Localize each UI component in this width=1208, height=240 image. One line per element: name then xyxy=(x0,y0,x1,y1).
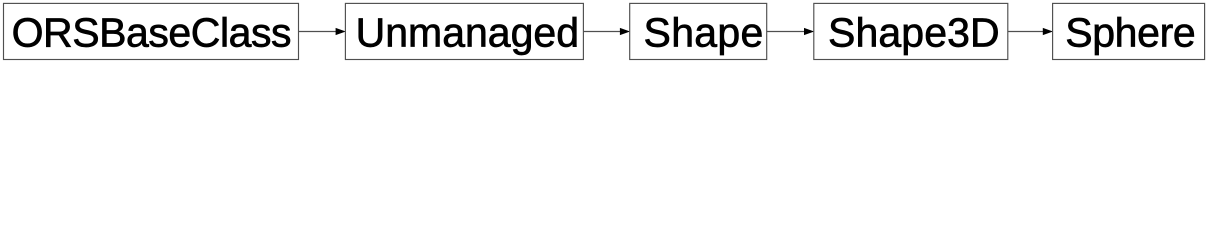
svg-text:Shape3D: Shape3D xyxy=(828,9,1000,55)
node Unmanaged xyxy=(345,3,583,59)
svg-text:Shape: Shape xyxy=(644,9,764,55)
node Shape3D xyxy=(814,3,1008,59)
node ORSBaseClass xyxy=(4,3,299,59)
node Sphere xyxy=(1053,3,1205,59)
arrow ORSBaseClass to Unmanaged xyxy=(299,28,345,34)
arrow Shape to Shape3D xyxy=(767,28,813,34)
arrow Unmanaged to Shape xyxy=(583,28,629,34)
svg-text:ORSBaseClass: ORSBaseClass xyxy=(12,9,291,55)
node Shape xyxy=(630,3,767,59)
arrow Shape3D to Sphere xyxy=(1008,28,1052,34)
svg-text:Sphere: Sphere xyxy=(1065,9,1195,55)
svg-text:Unmanaged: Unmanaged xyxy=(356,9,579,55)
